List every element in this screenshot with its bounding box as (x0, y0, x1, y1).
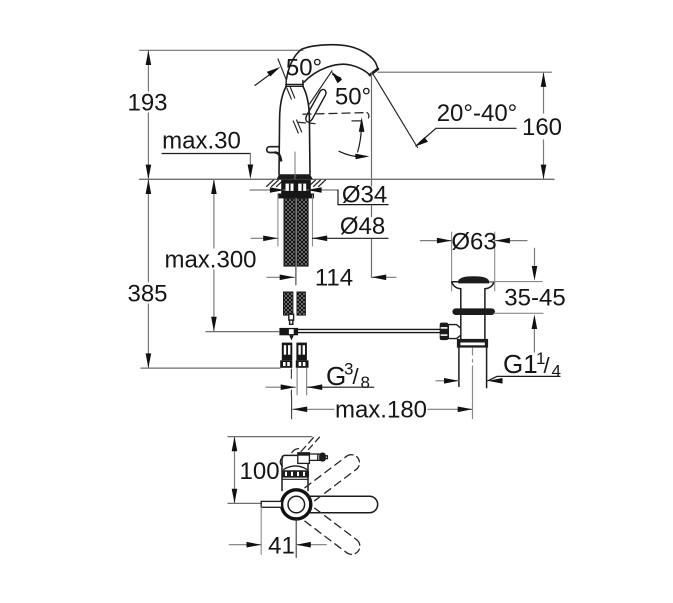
plan: inner circle (288, 496, 305, 513)
dimension max.180 (293, 397, 473, 424)
plan: spout direction dashes (301, 437, 320, 452)
line under band (283, 478, 308, 480)
dimension max.300 (164, 179, 256, 331)
svg-text:4: 4 (552, 362, 561, 381)
spout outline (302, 45, 379, 83)
svg-text:385: 385 (127, 281, 167, 308)
svg-text:50°: 50° (286, 55, 322, 82)
svg-text:160: 160 (522, 114, 562, 141)
plan: dashed lever upper position (305, 455, 360, 501)
plan: side stub (261, 501, 281, 507)
O63 extension lines (452, 232, 495, 291)
hose end connector above tee (289, 314, 294, 324)
svg-text:20°-40°: 20°-40° (437, 100, 518, 127)
svg-text:35-45: 35-45 (504, 284, 565, 311)
svg-text:193: 193 (127, 90, 167, 117)
dimension 41 (229, 507, 326, 559)
dashed lever (horizontal position) (299, 113, 369, 124)
dimension O48 (251, 213, 388, 241)
svg-text:max.180: max.180 (335, 397, 427, 424)
plan: mini lever (pointing right) (292, 449, 328, 464)
svg-text:/: / (544, 353, 551, 378)
svg-text:Ø48: Ø48 (340, 213, 385, 240)
angle arc arrow (right, to vertical line) (339, 151, 370, 159)
svg-text:max.30: max.30 (162, 128, 241, 155)
drain flange (452, 282, 494, 310)
spout edge extension line L1 (278, 59, 286, 80)
drain body (461, 315, 485, 340)
dimension 35-45 (489, 248, 565, 352)
plan: centre line below circle (295, 520, 297, 558)
100 top reference line (228, 436, 312, 438)
lever axis line L2 (310, 71, 333, 104)
lower flexible hoses (braided) (284, 292, 306, 315)
hidden waterway dashes (287, 87, 302, 133)
counter/deck line (140, 178, 554, 180)
linkage rod left (thin) (206, 331, 279, 333)
plan: valve body (280, 455, 308, 490)
svg-text:max.300: max.300 (164, 247, 256, 274)
counter hatch ticks right (309, 180, 326, 187)
385 bottom reference line (141, 367, 280, 369)
body left side (286, 49, 301, 80)
pop-up linkage tee fitting (279, 328, 298, 341)
pop-up rod knob (left tab) (267, 147, 280, 153)
svg-text:Ø34: Ø34 (342, 181, 387, 208)
linkage rod right (tube) (298, 329, 440, 332)
drain centre line (dash-dot) (472, 348, 474, 419)
dimension O63 (420, 229, 527, 256)
base flange (277, 174, 313, 179)
neck band (286, 80, 304, 86)
160 extension line (outlet level) (378, 71, 551, 73)
cartridge ellipse (284, 466, 307, 470)
drain plug dome (458, 276, 489, 283)
drain bottom nut (457, 339, 488, 348)
label 20-40 deg with leader (415, 100, 518, 147)
label max.30 with leader (162, 128, 253, 180)
linkage knurled knob (440, 323, 449, 341)
label G1 1/4 with arrows (436, 349, 561, 384)
dimension 385 (127, 179, 167, 368)
O48 flange extension lines (278, 195, 313, 246)
centre line below left connector (290, 369, 292, 396)
50-deg arc left leader with arrowhead (255, 67, 280, 86)
svg-text:G1: G1 (503, 349, 538, 379)
dimension 114 (267, 265, 396, 292)
dimension 193 (127, 50, 167, 179)
dimension 160 (522, 72, 562, 179)
svg-text:Ø63: Ø63 (451, 229, 496, 256)
pipe below right connector (297, 368, 307, 395)
label G3/8 with arrows (266, 360, 374, 393)
faucet body (side view) (267, 45, 378, 180)
linkage connector box (448, 325, 461, 339)
plan: dashed lever lower position (305, 508, 360, 554)
svg-text:8: 8 (361, 373, 370, 392)
svg-text:100: 100 (240, 458, 280, 485)
faucet centre line (294, 152, 296, 179)
50-deg arc right piece with arrowhead (331, 71, 342, 83)
centre line between hoses (295, 199, 297, 285)
svg-text:50°: 50° (335, 84, 371, 111)
plan: solid lever rod (308, 496, 378, 512)
svg-text:41: 41 (268, 533, 295, 560)
max.180 extension line left (291, 396, 293, 418)
mounting nut band (278, 194, 314, 199)
dimension O34 (250, 181, 388, 208)
spout outlet vertical extension line (371, 73, 373, 278)
lever handle (raised) (306, 89, 326, 122)
mounting shank block below counter (281, 180, 311, 194)
G3/8 hose connectors (280, 343, 308, 368)
drain tailpipe (459, 348, 487, 388)
plan: pivot circle (thick) (282, 490, 311, 519)
angle arc arrow (up, to dashed lever) (358, 117, 365, 152)
top extension line (spout top level) (140, 49, 303, 51)
spray direction diagonal line (373, 74, 418, 148)
body sides (vase) (279, 86, 286, 174)
svg-text:/: / (353, 364, 360, 389)
drain O-ring seal (452, 308, 495, 315)
100 bottom reference line (228, 502, 261, 504)
dimension 100 (232, 437, 280, 504)
counter hatch ticks left (267, 180, 284, 187)
svg-text:114: 114 (315, 265, 353, 292)
SIDE VIEW GROUP (127, 45, 565, 560)
left bulge (280, 458, 283, 467)
upper flexible hoses (braided) (284, 199, 308, 266)
plan: knurled ring band (282, 470, 309, 477)
